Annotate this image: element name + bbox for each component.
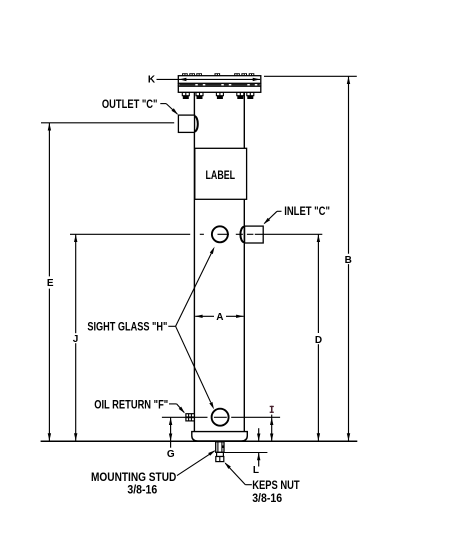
- dimension E line: [48, 123, 50, 277]
- svg-text:K: K: [148, 75, 156, 86]
- svg-text:OIL RETURN "F": OIL RETURN "F": [94, 398, 168, 412]
- mounting stud upper nut: [216, 442, 224, 453]
- dimension A: [195, 315, 214, 317]
- svg-text:G: G: [167, 449, 175, 460]
- svg-text:3/8-16: 3/8-16: [127, 483, 157, 497]
- inlet box C: [245, 226, 264, 243]
- svg-text:A: A: [216, 312, 223, 323]
- flange top bolts: [182, 73, 254, 76]
- extension line E top: [41, 122, 174, 124]
- svg-text:L: L: [253, 465, 259, 476]
- extension line J top: [70, 233, 190, 235]
- svg-text:B: B: [345, 255, 352, 266]
- svg-text:SIGHT GLASS "H": SIGHT GLASS "H": [87, 320, 167, 334]
- svg-text:INLET "C": INLET "C": [284, 204, 330, 218]
- dimension J line: [75, 234, 77, 333]
- svg-text:OUTLET "C": OUTLET "C": [102, 97, 158, 111]
- inlet leader: [277, 210, 282, 212]
- inlet centerline: [200, 233, 204, 235]
- dimension K line: [157, 78, 261, 80]
- svg-text:LABEL: LABEL: [206, 170, 236, 182]
- flange gasket centerline: [179, 84, 259, 86]
- outlet bore arc: [195, 116, 198, 131]
- svg-text:E: E: [47, 278, 54, 289]
- keps nut leader: [245, 484, 252, 486]
- sight glass top: [212, 226, 228, 242]
- outlet box C: [178, 115, 194, 132]
- keps nut bottom: [216, 457, 224, 462]
- flange bottom bolts: [182, 92, 254, 99]
- oil return fitting: [186, 414, 195, 421]
- L reference line: [224, 452, 267, 454]
- flange top plate: [178, 76, 260, 84]
- extension line D top: [255, 233, 322, 235]
- inlet bore arc: [240, 227, 244, 242]
- vessel left wall: [193, 92, 195, 431]
- dimension L: [258, 428, 260, 441]
- label I: [270, 406, 274, 413]
- label plate: [195, 148, 247, 199]
- sight glass bottom: [212, 409, 229, 426]
- mounting stud middle: [217, 452, 224, 456]
- outlet leader: [160, 103, 166, 105]
- extension line B top: [264, 75, 357, 77]
- ground line: [41, 440, 358, 442]
- flange bottom plate: [178, 86, 260, 92]
- svg-text:J: J: [73, 334, 79, 345]
- dimension D line: [317, 234, 319, 333]
- dimension B line: [348, 76, 350, 253]
- dimension I line: [271, 415, 273, 441]
- mounting stud leader: [177, 451, 215, 476]
- bottom cap: [192, 432, 248, 441]
- svg-text:3/8-16: 3/8-16: [252, 491, 282, 505]
- flange edge connectors: [177, 83, 179, 86]
- oil return leader: [169, 403, 177, 405]
- sight glass leader: [168, 325, 175, 327]
- dimension G: [170, 417, 172, 447]
- svg-text:D: D: [315, 335, 322, 346]
- vessel right wall: [243, 92, 245, 431]
- oil return level line: [162, 416, 208, 418]
